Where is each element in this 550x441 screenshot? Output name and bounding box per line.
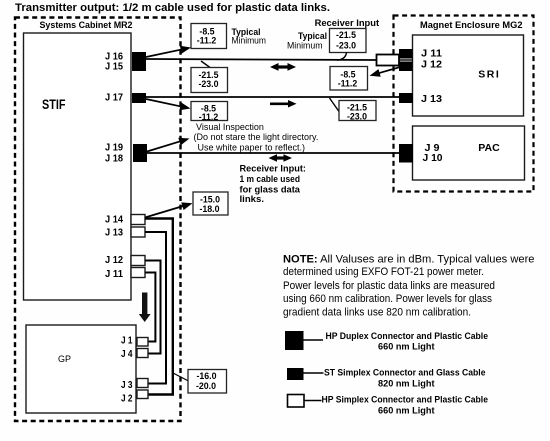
value box F -8.5/-11.2 (330, 67, 368, 91)
connector J17 (black) (132, 93, 146, 103)
wire 3 J18 to J9 (147, 152, 400, 154)
svg-text:STIF: STIF (42, 97, 66, 112)
value box D -21.5/-23.0 (191, 68, 228, 93)
arrow J17 to value box E (146, 99, 191, 110)
svg-text:-16.0: -16.0 (196, 371, 216, 381)
Visual Inspection note (194, 122, 319, 153)
STIF box (24, 33, 132, 300)
svg-text:J 19: J 19 (105, 143, 123, 154)
Magnet Enclosure MG2 dashed enclosure (394, 16, 534, 192)
connector J12 (white) (131, 256, 145, 266)
svg-text:Transmitter output: 1/2 m cabl: Transmitter output: 1/2 m cable used for… (15, 2, 330, 14)
value box H -16.0/-20.0 (188, 370, 227, 394)
value box A -8.5/-11.2 (191, 24, 227, 49)
svg-text:determined using EXFO FOT-21 p: determined using EXFO FOT-21 power meter… (283, 266, 484, 278)
legend line 1 (304, 339, 324, 341)
value box E -8.5/-11.2 (191, 102, 228, 123)
connector J11/J12 (black, slotted) (399, 49, 413, 71)
SRI box (413, 35, 524, 116)
legend line 2 (304, 372, 324, 374)
wire J13 to J3 (145, 232, 166, 384)
svg-text:J 4: J 4 (121, 349, 133, 360)
legend text 1 (326, 331, 489, 352)
legend swatch HP duplex (black square) (285, 331, 304, 350)
svg-text:HP Duplex Connector and Plasti: HP Duplex Connector and Plastic Cable (326, 331, 489, 341)
svg-text:HP Simplex Connector and Plast: HP Simplex Connector and Plastic Cable (322, 395, 489, 405)
connector J14 (white) (131, 215, 145, 225)
NOTE paragraph (283, 254, 535, 319)
svg-text:1 m cable used: 1 m cable used (240, 174, 301, 184)
value box C -21.5/-23.0 (339, 101, 376, 122)
value box G -15.0/-18.0 (193, 192, 228, 215)
legend swatch HP simplex (white square) (288, 395, 305, 408)
wire J11 to J1 (145, 273, 155, 342)
svg-text:J 14: J 14 (105, 215, 123, 226)
svg-text:J 1: J 1 (121, 336, 133, 347)
svg-text:Systems Cabinet MR2: Systems Cabinet MR2 (40, 20, 133, 31)
GP box (26, 325, 136, 413)
svg-text:-23.0: -23.0 (347, 112, 367, 122)
legend swatch ST simplex (black square small) (287, 368, 304, 380)
svg-text:-11.2: -11.2 (197, 36, 217, 46)
svg-text:J 12: J 12 (421, 60, 442, 71)
svg-text:J 2: J 2 (121, 394, 133, 405)
connector J13 (black) (399, 93, 413, 103)
svg-text:-23.0: -23.0 (336, 41, 356, 51)
wire J14 to J2 (145, 219, 173, 395)
svg-text:links.: links. (240, 194, 265, 204)
connector J13 (white) (131, 227, 145, 237)
svg-text:GP: GP (58, 354, 71, 364)
leader wire2 to box C (330, 98, 340, 112)
svg-text:Minimum: Minimum (232, 36, 267, 46)
svg-text:-21.5: -21.5 (336, 30, 356, 40)
svg-text:-11.2: -11.2 (338, 79, 358, 89)
svg-text:-11.2: -11.2 (199, 112, 219, 122)
svg-text:Power levels for plastic data: Power levels for plastic data links are … (283, 280, 495, 292)
legend text 2 (324, 368, 486, 389)
svg-text:(Do not stare the light direct: (Do not stare the light directory. (194, 132, 319, 142)
svg-text:660 nm Light: 660 nm Light (378, 406, 435, 416)
connector J2 (white) (137, 390, 148, 399)
svg-text:Typical: Typical (298, 31, 327, 41)
svg-text:PAC: PAC (478, 142, 500, 154)
double arrow on wire 1 (270, 63, 296, 71)
single arrow on wire 2 (270, 100, 297, 108)
wire 2 J17 to J13 (146, 96, 400, 98)
svg-text:SRI: SRI (478, 69, 499, 81)
connector J3 (white) (137, 379, 148, 388)
svg-text:Minimum: Minimum (287, 41, 323, 51)
connector J16/J15 duplex (black) (132, 52, 146, 71)
svg-text:Visual Inspection: Visual Inspection (196, 122, 264, 132)
connector J1 (white) (137, 338, 148, 347)
arrow J18 to visual inspection note (147, 138, 190, 152)
Receiver Input note (middle) (240, 164, 307, 205)
leader wire to box H (173, 373, 189, 381)
wire 1 J15 to J12 (146, 59, 377, 60)
svg-text:J 17: J 17 (105, 93, 123, 104)
value box B -21.5/-23.0 (330, 29, 367, 53)
svg-text:J 13: J 13 (105, 228, 123, 239)
connector J9/J10 (black) (399, 144, 413, 163)
svg-text:Magnet Enclosure MG2: Magnet Enclosure MG2 (420, 20, 523, 31)
PAC box (413, 126, 525, 180)
double arrow on wire 3 (269, 154, 293, 162)
svg-text:-20.0: -20.0 (196, 381, 216, 391)
svg-text:820 nm Light: 820 nm Light (378, 379, 435, 389)
Systems Cabinet MR2 dashed enclosure (15, 18, 181, 422)
connector J11 (white) (131, 268, 145, 278)
legend text 3 (322, 395, 489, 416)
svg-text:J 15: J 15 (105, 62, 123, 73)
arrow J14 to value box G (145, 202, 193, 217)
svg-text:-18.0: -18.0 (199, 204, 219, 214)
svg-text:NOTE: All Valuses are in dBm.: NOTE: All Valuses are in dBm. Typical va… (283, 254, 535, 266)
legend line 3 (304, 400, 322, 402)
svg-text:-15.0: -15.0 (200, 195, 220, 205)
svg-text:J 10: J 10 (423, 153, 443, 164)
wire J12 to J4 (145, 261, 161, 354)
svg-text:for glass data: for glass data (240, 185, 302, 195)
svg-text:Receiver Input:: Receiver Input: (240, 164, 307, 174)
svg-text:J 13: J 13 (421, 94, 442, 105)
leader wire1 to box D (201, 61, 210, 68)
svg-text:J 11: J 11 (105, 269, 123, 280)
arrow J12 to value box F (370, 65, 410, 77)
svg-text:gradient data links use 820 nm: gradient data links use 820 nm calibrati… (283, 307, 471, 319)
svg-text:Receiver Input: Receiver Input (315, 18, 380, 28)
leader hook box B to wire 1 (337, 53, 347, 61)
svg-text:660 nm Light: 660 nm Light (378, 342, 435, 352)
svg-text:J 12: J 12 (105, 255, 123, 266)
svg-text:Use white paper to reflect.): Use white paper to reflect.) (198, 143, 306, 153)
svg-text:using 660 nm calibration. Powe: using 660 nm calibration. Power levels f… (283, 293, 493, 305)
HP simplex connector (white) at J12 (377, 55, 400, 66)
svg-text:J 18: J 18 (105, 154, 123, 165)
svg-text:J 3: J 3 (121, 380, 133, 391)
arrow J16 to value box A (146, 46, 191, 57)
connector J4 (white) (137, 349, 148, 358)
big down arrow STIF to GP (139, 293, 151, 323)
svg-text:J 11: J 11 (421, 49, 442, 60)
svg-text:-23.0: -23.0 (198, 79, 218, 89)
connector J19/J18 duplex (black) (133, 144, 147, 162)
svg-text:ST Simplex Connector and Glass: ST Simplex Connector and Glass Cable (324, 368, 486, 378)
